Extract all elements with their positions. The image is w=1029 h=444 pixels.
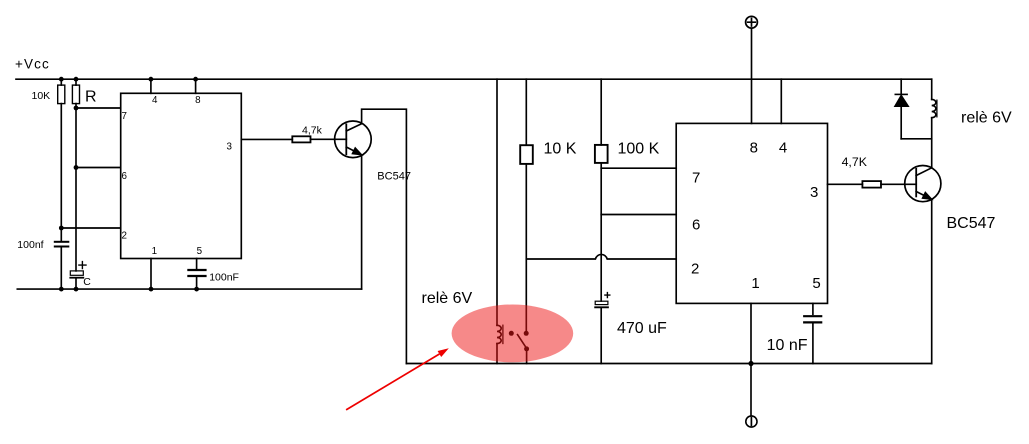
svg-text:10K: 10K	[32, 90, 51, 102]
svg-text:1: 1	[751, 275, 759, 292]
svg-text:+Vcc: +Vcc	[15, 57, 50, 72]
svg-text:4,7k: 4,7k	[302, 125, 323, 137]
svg-text:4,7K: 4,7K	[842, 155, 868, 169]
svg-text:2: 2	[122, 231, 127, 242]
svg-text:3: 3	[227, 141, 233, 152]
svg-text:BC547: BC547	[947, 215, 996, 232]
svg-text:4: 4	[779, 140, 787, 157]
svg-text:C: C	[83, 276, 91, 288]
svg-text:7: 7	[122, 111, 127, 122]
svg-text:10 K: 10 K	[544, 140, 577, 157]
svg-text:2: 2	[691, 261, 699, 278]
svg-text:5: 5	[197, 246, 203, 257]
svg-text:6: 6	[692, 216, 700, 233]
svg-text:BC547: BC547	[377, 170, 411, 182]
svg-text:8: 8	[750, 140, 758, 157]
svg-text:R: R	[85, 89, 97, 106]
svg-text:100nF: 100nF	[209, 272, 239, 284]
svg-text:relè 6V: relè 6V	[961, 109, 1012, 126]
svg-text:4: 4	[152, 95, 158, 106]
svg-text:8: 8	[195, 95, 201, 106]
svg-text:100nf: 100nf	[17, 239, 43, 251]
svg-text:6: 6	[122, 171, 128, 182]
svg-text:10 nF: 10 nF	[767, 337, 808, 354]
svg-text:100 K: 100 K	[618, 140, 660, 157]
svg-text:1: 1	[152, 246, 157, 257]
svg-text:3: 3	[810, 184, 818, 201]
svg-text:470 uF: 470 uF	[617, 320, 667, 337]
svg-text:5: 5	[812, 275, 820, 292]
svg-text:7: 7	[692, 170, 700, 187]
svg-text:relè 6V: relè 6V	[422, 290, 473, 307]
